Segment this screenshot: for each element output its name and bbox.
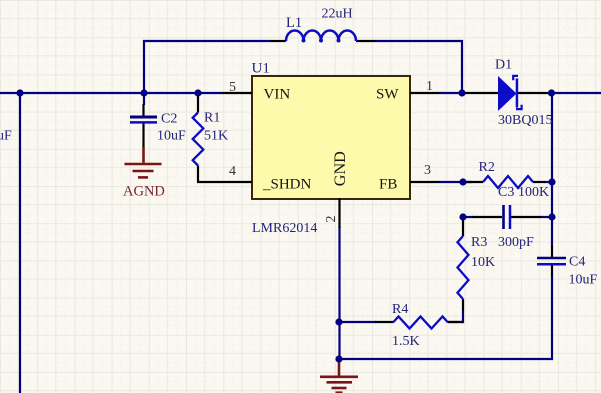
svg-text:3: 3 <box>424 163 431 178</box>
svg-text:5: 5 <box>229 80 236 95</box>
svg-text:51K: 51K <box>204 129 228 144</box>
svg-text:FB: FB <box>379 177 397 193</box>
svg-text:1: 1 <box>426 79 433 94</box>
svg-text:R3: R3 <box>471 235 487 250</box>
svg-text:1.5K: 1.5K <box>392 334 420 349</box>
svg-text:SW: SW <box>376 87 399 103</box>
svg-text:22uH: 22uH <box>322 7 353 22</box>
svg-text:L1: L1 <box>286 15 302 31</box>
svg-text:4: 4 <box>229 164 236 179</box>
svg-text:100K: 100K <box>518 185 549 200</box>
svg-text:R4: R4 <box>392 302 408 317</box>
svg-text:10K: 10K <box>471 255 495 270</box>
svg-text:2: 2 <box>324 216 339 223</box>
svg-text:10uF: 10uF <box>569 273 598 288</box>
svg-text:C2: C2 <box>161 112 177 127</box>
svg-text:D1: D1 <box>495 57 512 72</box>
svg-text:GND: GND <box>331 151 349 186</box>
svg-text:C4: C4 <box>569 255 585 270</box>
svg-text:uF: uF <box>0 129 12 144</box>
svg-text:LMR62014: LMR62014 <box>252 221 317 236</box>
svg-text:300pF: 300pF <box>498 235 534 250</box>
svg-text:30BQ015: 30BQ015 <box>498 113 552 128</box>
svg-text:10uF: 10uF <box>157 128 186 143</box>
svg-text:_SHDN: _SHDN <box>262 177 312 193</box>
svg-text:VIN: VIN <box>264 87 291 103</box>
svg-text:AGND: AGND <box>123 184 165 200</box>
svg-text:R1: R1 <box>204 111 220 126</box>
svg-text:R2: R2 <box>479 160 495 175</box>
svg-text:C3: C3 <box>498 185 514 200</box>
svg-text:U1: U1 <box>252 60 270 76</box>
